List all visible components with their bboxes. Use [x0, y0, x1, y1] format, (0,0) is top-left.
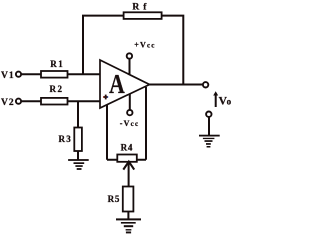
- svg-text:R4: R4: [121, 142, 134, 152]
- svg-text:+Vcc: +Vcc: [134, 41, 155, 50]
- svg-text:R5: R5: [108, 194, 121, 204]
- svg-text:Rf: Rf: [132, 2, 150, 12]
- svg-text:R1: R1: [50, 59, 64, 69]
- svg-text:-Vcc: -Vcc: [120, 119, 139, 128]
- svg-text:o: o: [227, 97, 232, 107]
- svg-text:R3: R3: [59, 134, 72, 144]
- svg-text:V1: V1: [1, 71, 15, 81]
- svg-text:A: A: [109, 70, 125, 100]
- svg-text:R2: R2: [50, 84, 64, 94]
- svg-text:V2: V2: [1, 98, 15, 108]
